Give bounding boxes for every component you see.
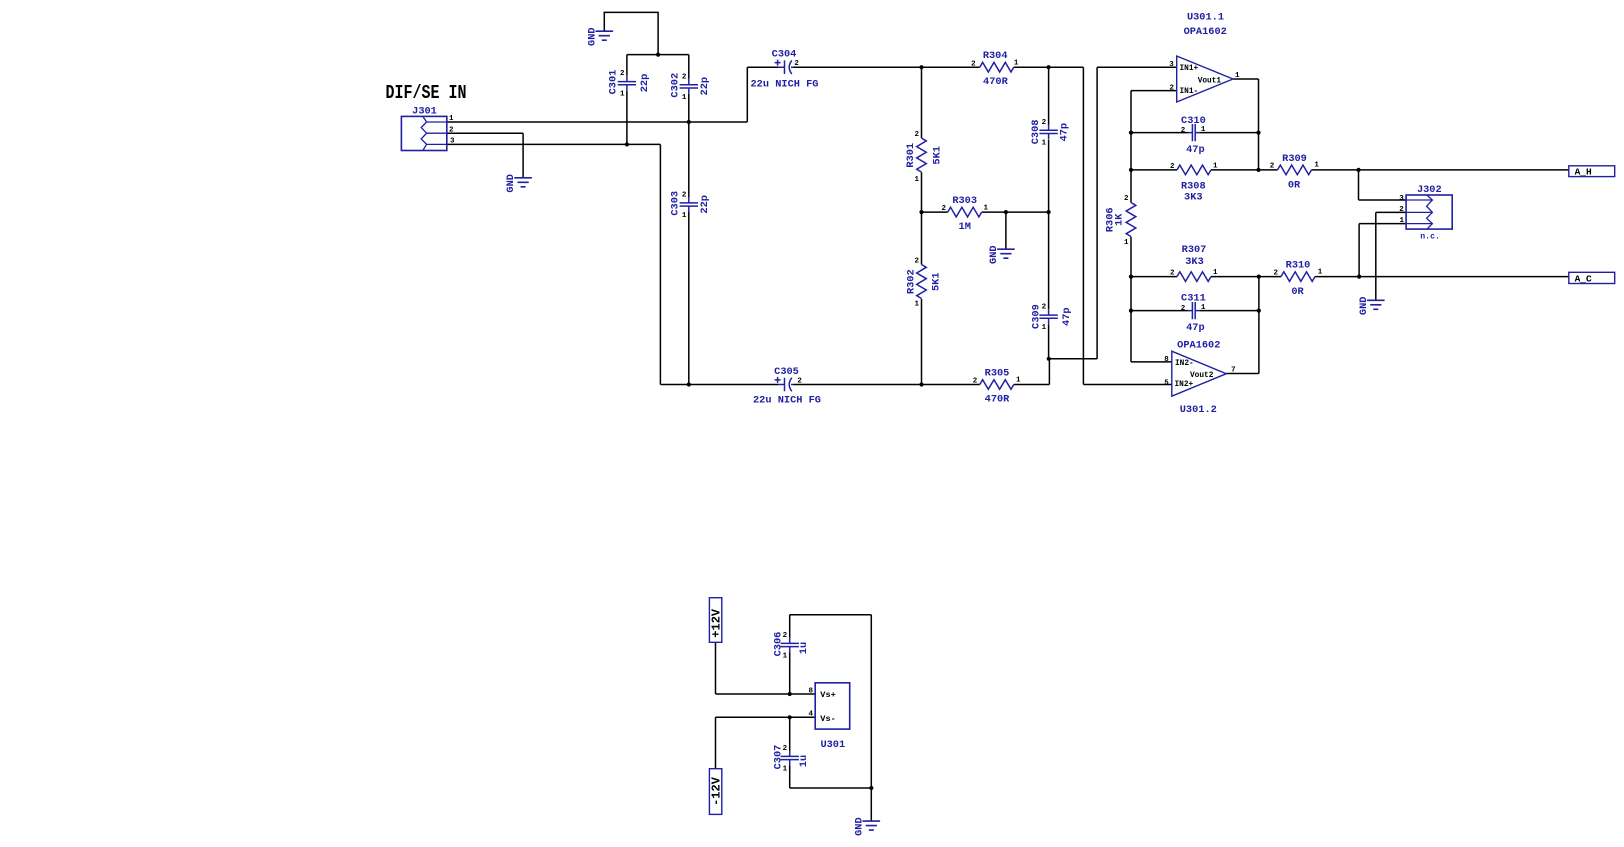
svg-text:1: 1 (1201, 304, 1206, 312)
svg-text:n.c.: n.c. (1420, 233, 1440, 242)
ground GND2 at J301 pin2 (514, 178, 532, 187)
svg-text:Vs+: Vs+ (820, 690, 835, 700)
wire C302 column (688, 55, 690, 122)
svg-text:1: 1 (914, 176, 919, 184)
junction R302 bottom (919, 382, 923, 386)
svg-text:U301.1: U301.1 (1187, 12, 1224, 24)
wire +12V to Vs+ (716, 642, 816, 694)
svg-text:C308: C308 (1030, 120, 1042, 145)
svg-text:8: 8 (809, 688, 814, 696)
wire Vs- to -12V (716, 717, 816, 768)
op-amp U301.1 OPA1602 (1169, 12, 1240, 103)
svg-text:2: 2 (1270, 163, 1275, 171)
junction A_H tap (1356, 168, 1360, 172)
svg-text:1: 1 (983, 205, 988, 213)
ground GND1 top (596, 31, 614, 40)
junction C301/C302 top (656, 53, 660, 57)
svg-text:2: 2 (1181, 305, 1186, 313)
svg-text:GND: GND (1358, 297, 1370, 316)
svg-text:1: 1 (1314, 162, 1319, 170)
net terminal A_H (1569, 166, 1615, 178)
wire R301 column (921, 67, 923, 212)
svg-text:3K3: 3K3 (1184, 192, 1203, 204)
wire J301 pin2 to GND (447, 133, 523, 178)
capacitor C302 (669, 73, 711, 102)
svg-text:R301: R301 (905, 143, 917, 168)
svg-text:1K: 1K (1113, 213, 1125, 226)
svg-text:8: 8 (1164, 356, 1169, 364)
svg-text:R302: R302 (906, 269, 918, 294)
junction C311 right (1257, 309, 1261, 313)
svg-text:2: 2 (783, 632, 788, 640)
junction C311 left (1129, 309, 1133, 313)
svg-text:R303: R303 (952, 195, 977, 207)
svg-text:3: 3 (1169, 61, 1174, 69)
svg-text:R305: R305 (985, 368, 1010, 380)
svg-text:5K1: 5K1 (931, 272, 943, 291)
wire C311 net (1131, 310, 1259, 312)
wire J301 pin1 to C304 (447, 67, 779, 122)
junction C303 bottom (687, 382, 691, 386)
svg-text:1u: 1u (798, 642, 810, 654)
wire R303 output to GND (1005, 212, 1007, 249)
svg-text:R304: R304 (983, 50, 1008, 62)
svg-text:GND: GND (988, 245, 1000, 264)
svg-text:R308: R308 (1181, 180, 1206, 192)
svg-text:2: 2 (914, 258, 919, 266)
svg-text:1: 1 (682, 212, 687, 220)
op-amp U301.2 OPA1602 (1164, 339, 1235, 416)
svg-text:47p: 47p (1186, 144, 1205, 156)
svg-text:2: 2 (1042, 304, 1047, 312)
svg-text:22p: 22p (699, 195, 711, 214)
supply terminal -12V (709, 769, 723, 815)
svg-text:47p: 47p (1059, 123, 1071, 142)
junction R307 left (1129, 275, 1133, 279)
resistor R304 (971, 50, 1019, 88)
wire C310 net (1131, 132, 1259, 134)
wire A_H net to J302 pin3 (1359, 170, 1407, 200)
wire C308/C309 column (1048, 67, 1050, 359)
junction Vs- node (788, 715, 792, 719)
svg-text:5K1: 5K1 (932, 146, 944, 165)
svg-text:3: 3 (450, 137, 455, 145)
ground GND3 at R303 (997, 249, 1015, 258)
resistor R305 (973, 368, 1021, 406)
svg-text:R309: R309 (1282, 153, 1307, 165)
svg-text:1: 1 (449, 115, 454, 123)
svg-text:1: 1 (783, 652, 788, 660)
svg-text:22u NICH FG: 22u NICH FG (751, 79, 819, 91)
svg-text:1: 1 (620, 91, 625, 99)
svg-text:R310: R310 (1286, 260, 1311, 272)
svg-text:2: 2 (1399, 206, 1404, 214)
svg-text:2: 2 (914, 131, 919, 139)
svg-text:0R: 0R (1288, 179, 1301, 191)
svg-text:C309: C309 (1030, 304, 1042, 329)
capacitor C301 (607, 70, 651, 99)
svg-text:470R: 470R (985, 394, 1011, 406)
junction C310 right (1256, 131, 1260, 135)
svg-text:2: 2 (783, 745, 788, 753)
svg-text:U301: U301 (820, 739, 845, 751)
svg-text:2: 2 (973, 377, 978, 385)
svg-text:1: 1 (1042, 140, 1047, 148)
resistor R310 (1273, 260, 1322, 298)
ground GND4 at J302 (1367, 300, 1385, 309)
svg-text:3K3: 3K3 (1185, 256, 1204, 268)
svg-text:IN1+: IN1+ (1180, 65, 1199, 73)
svg-text:47p: 47p (1186, 322, 1205, 334)
svg-text:2: 2 (1170, 163, 1175, 171)
svg-text:GND: GND (853, 817, 865, 836)
junction R301 top (919, 65, 923, 69)
junction A_C tap (1357, 275, 1361, 279)
junction power GND tap (869, 786, 873, 790)
junction Vs+ node (788, 692, 792, 696)
capacitor C307 (772, 745, 810, 774)
svg-text:-12V: -12V (709, 776, 723, 806)
svg-text:IN1-: IN1- (1180, 88, 1199, 96)
svg-text:DIF/SE IN: DIF/SE IN (386, 82, 467, 104)
resistor R301 (905, 131, 944, 184)
svg-text:2: 2 (1273, 269, 1278, 277)
wire bottom net riser to IN1+ (1097, 67, 1177, 359)
wire C306 column (789, 615, 791, 694)
svg-text:2: 2 (971, 60, 976, 68)
junction C310 left (1129, 131, 1133, 135)
svg-text:J301: J301 (412, 106, 437, 118)
svg-text:47p: 47p (1061, 307, 1073, 326)
wire power bottom to GND (790, 788, 872, 821)
junction R308/R309 (1256, 168, 1260, 172)
svg-text:2: 2 (449, 127, 454, 135)
svg-text:2: 2 (682, 73, 687, 81)
svg-text:1: 1 (1124, 239, 1129, 247)
svg-text:Vout2: Vout2 (1190, 372, 1214, 380)
svg-text:22p: 22p (699, 77, 711, 96)
svg-text:IN2-: IN2- (1175, 360, 1194, 368)
svg-text:C302: C302 (669, 73, 681, 98)
wire Vout1 feedback column (1233, 79, 1259, 170)
svg-text:OPA1602: OPA1602 (1184, 26, 1227, 38)
svg-text:2: 2 (1170, 270, 1175, 278)
svg-text:OPA1602: OPA1602 (1177, 339, 1220, 351)
svg-text:1: 1 (1213, 162, 1218, 170)
wire J302 pin1 to A_C net (1359, 224, 1406, 277)
junction pin1/C302 (687, 120, 691, 124)
svg-text:Vs-: Vs- (820, 714, 835, 724)
wire C307 column (789, 717, 791, 788)
svg-text:7: 7 (1231, 367, 1236, 375)
svg-text:2: 2 (794, 60, 799, 68)
resistor R303 (941, 195, 988, 233)
svg-text:J302: J302 (1417, 184, 1442, 196)
svg-text:GND: GND (505, 174, 517, 193)
svg-text:A_H: A_H (1575, 167, 1592, 178)
wire R302 column (921, 212, 923, 384)
net terminal A_C (1569, 272, 1615, 284)
svg-text:1: 1 (1042, 324, 1047, 332)
wire C301-C302 top link (627, 54, 689, 56)
wire C305 to R305 to cross link (794, 359, 1098, 385)
svg-text:A_C: A_C (1575, 273, 1592, 284)
capacitor C311 (1181, 293, 1206, 334)
wire J301 pin3 down to bottom net (447, 144, 661, 384)
resistor R308 (1170, 162, 1218, 203)
connector J302 (1399, 184, 1452, 242)
junction R304 out / C308 (1047, 65, 1051, 69)
svg-text:470R: 470R (983, 76, 1009, 88)
svg-text:IN2+: IN2+ (1175, 381, 1194, 389)
capacitor C305 (22u NICH FG) (753, 366, 821, 406)
svg-text:U301.2: U301.2 (1180, 404, 1217, 416)
wire R307/R310 to A_C (1131, 276, 1569, 278)
wire GND to C301/C302 top (604, 12, 658, 54)
svg-text:C305: C305 (774, 366, 799, 378)
capacitor C308 (1030, 119, 1071, 147)
wire IN1- to R306 top (1131, 91, 1177, 203)
svg-text:1: 1 (682, 94, 687, 102)
svg-text:2: 2 (1124, 195, 1129, 203)
junction R308 left (1129, 168, 1133, 172)
junction pin3/C301 (625, 142, 629, 146)
wire C303 column (688, 122, 690, 385)
svg-text:0R: 0R (1291, 286, 1304, 298)
resistor R306 (1105, 195, 1136, 247)
resistor R309 (1270, 153, 1320, 192)
svg-text:4: 4 (809, 711, 814, 719)
capacitor C303 (669, 191, 711, 220)
wire J302 pin2 to GND (1376, 212, 1406, 300)
svg-text:2: 2 (1169, 84, 1174, 92)
wire R308/R309 to A_H (1131, 169, 1569, 171)
IC power pins U301 (Vs+/Vs-) (809, 683, 850, 751)
connector J301 (401, 106, 455, 151)
svg-text:2: 2 (941, 205, 946, 213)
svg-text:C310: C310 (1181, 115, 1206, 127)
resistor R307 (1170, 244, 1218, 281)
junction C309 bottom (1047, 357, 1051, 361)
junction R307/R310 (1257, 275, 1261, 279)
svg-text:1: 1 (1235, 72, 1240, 80)
svg-text:1: 1 (1213, 269, 1218, 277)
svg-text:1: 1 (1016, 376, 1021, 384)
svg-text:C303: C303 (669, 191, 681, 216)
svg-text:22u NICH FG: 22u NICH FG (753, 394, 821, 406)
wire power top link (790, 615, 872, 788)
capacitor C304 (22u NICH FG) (751, 49, 819, 91)
svg-text:C311: C311 (1181, 293, 1206, 305)
wire C304 to R304 to IN2+ (top input net) (794, 67, 1172, 384)
junction C308/C309 mid (1047, 210, 1051, 214)
resistor R302 (906, 258, 943, 309)
svg-text:C304: C304 (772, 49, 797, 61)
svg-text:1: 1 (1318, 268, 1323, 276)
svg-text:R307: R307 (1182, 244, 1207, 256)
wire Vout2 feedback column (1226, 277, 1259, 374)
svg-text:1: 1 (1399, 217, 1404, 225)
svg-text:2: 2 (797, 378, 802, 386)
wire C301 column (626, 55, 628, 145)
svg-text:22p: 22p (639, 74, 651, 93)
svg-text:2: 2 (682, 192, 687, 200)
svg-text:1: 1 (1201, 126, 1206, 134)
svg-text:GND: GND (586, 27, 598, 46)
svg-text:1: 1 (1014, 60, 1019, 68)
junction R301/R302/R303 (919, 210, 923, 214)
svg-text:3: 3 (1399, 195, 1404, 203)
svg-text:2: 2 (1181, 127, 1186, 135)
svg-text:C301: C301 (607, 70, 619, 95)
svg-text:+12V: +12V (709, 608, 723, 638)
svg-text:1: 1 (783, 765, 788, 773)
wire R306 bottom to IN2- (1131, 237, 1172, 362)
svg-text:1: 1 (914, 300, 919, 308)
ground GND5 power (863, 821, 881, 830)
svg-text:Vout1: Vout1 (1198, 77, 1222, 85)
wire R303 net (922, 211, 1049, 213)
capacitor C310 (1181, 115, 1206, 156)
svg-text:1u: 1u (798, 755, 810, 767)
svg-text:1M: 1M (959, 221, 971, 233)
svg-text:5: 5 (1164, 379, 1169, 387)
wire bottom net to C305 (660, 384, 778, 386)
capacitor C309 (1030, 304, 1073, 332)
svg-text:2: 2 (620, 70, 625, 78)
supply terminal +12V (709, 598, 723, 643)
capacitor C306 (772, 632, 810, 661)
junction R303 out GND (1004, 210, 1008, 214)
svg-text:2: 2 (1042, 119, 1047, 127)
